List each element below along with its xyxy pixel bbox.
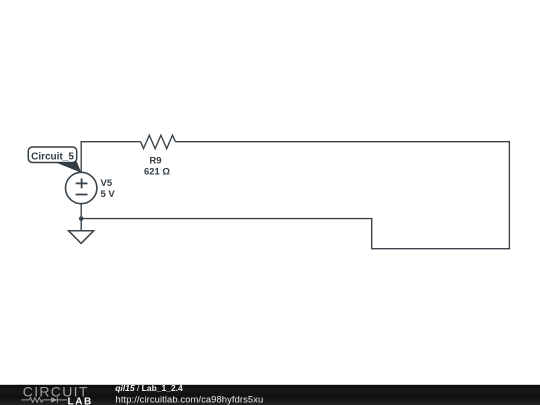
svg-text:Circuit_5: Circuit_5 xyxy=(31,151,74,162)
svg-text:621 Ω: 621 Ω xyxy=(144,167,170,178)
svg-text:LAB: LAB xyxy=(68,397,93,405)
svg-text:qil15 / Lab_1_2.4: qil15 / Lab_1_2.4 xyxy=(115,383,183,393)
svg-text:5 V: 5 V xyxy=(101,189,116,200)
svg-text:V5: V5 xyxy=(101,178,113,189)
svg-text:R9: R9 xyxy=(149,155,161,166)
svg-text:http://circuitlab.com/ca98hyfd: http://circuitlab.com/ca98hyfdrs5xu xyxy=(116,393,264,404)
